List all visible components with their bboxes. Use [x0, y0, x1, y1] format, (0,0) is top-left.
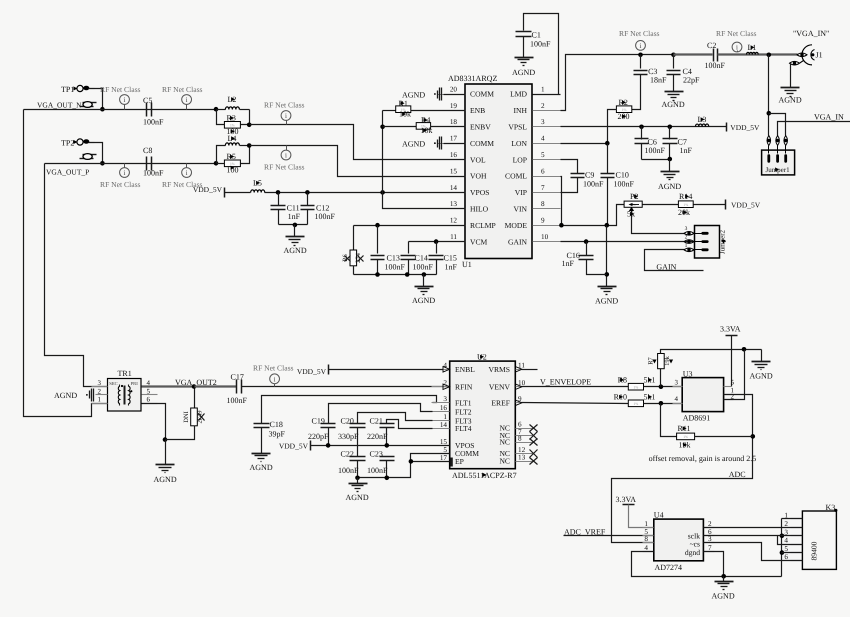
- svg-text:C19: C19: [312, 417, 325, 426]
- svg-text:VDD_5V: VDD_5V: [731, 200, 761, 209]
- U2 ENBL input arrow: [443, 367, 450, 373]
- wire C10 ground vertical: [606, 226, 608, 287]
- capacitor C15: [436, 242, 438, 254]
- wire U4 pin3 cs to K3 pin6: [704, 543, 803, 561]
- junction N-line split: [214, 107, 219, 112]
- svg-text:13: 13: [518, 453, 526, 461]
- svg-text:COMM: COMM: [470, 139, 494, 148]
- svg-text:10: 10: [541, 233, 549, 241]
- ground AGND below U4: [715, 581, 734, 583]
- svg-text:LON: LON: [511, 139, 527, 148]
- svg-text:100nF: 100nF: [143, 169, 164, 178]
- wire U4 pin6 sclk to K3 pin3: [704, 535, 803, 537]
- svg-text:17: 17: [440, 454, 448, 462]
- U2 left pin stubs: [432, 369, 450, 371]
- svg-text:4: 4: [644, 544, 648, 552]
- svg-text:C14: C14: [415, 254, 428, 263]
- wire R2 to LON vertical: [608, 110, 617, 144]
- junction rail C14: [405, 272, 410, 277]
- svg-text:2: 2: [784, 520, 788, 528]
- resistor R6: [350, 250, 357, 266]
- junction EP/COMM: [409, 459, 414, 464]
- svg-text:C18: C18: [270, 420, 283, 429]
- svg-text:20: 20: [450, 85, 458, 93]
- capacitor C9: [561, 160, 578, 174]
- svg-text:AGND: AGND: [284, 246, 307, 255]
- svg-text:AD8331ARQZ: AD8331ARQZ: [448, 74, 497, 83]
- wire VENV net: [522, 386, 629, 388]
- svg-text:C21: C21: [370, 417, 383, 426]
- svg-text:dgnd: dgnd: [685, 548, 700, 557]
- svg-text:AGND: AGND: [779, 96, 802, 105]
- wire EREF net: [522, 403, 629, 404]
- wire VCM net: [409, 241, 466, 243]
- svg-text:U1: U1: [462, 260, 472, 269]
- svg-text:i: i: [186, 169, 188, 177]
- svg-text:TP1: TP1: [61, 85, 74, 94]
- svg-text:1nF: 1nF: [680, 146, 693, 155]
- junction J1 tap: [767, 53, 772, 58]
- svg-text:COMM: COMM: [470, 90, 494, 99]
- junction C21 bottom: [385, 443, 390, 448]
- wire K3 ground bus: [782, 518, 803, 520]
- svg-text:5: 5: [147, 387, 151, 395]
- junction C22 ground: [355, 476, 360, 481]
- junction C19 bottom: [326, 443, 331, 448]
- wire VPOS rail: [265, 192, 466, 194]
- svg-text:100nF: 100nF: [705, 61, 726, 70]
- capacitor C12: [307, 193, 309, 206]
- op-amp U2 ADL5511ACPZ-R7 body: [450, 361, 516, 469]
- junction ground stub C11/C12: [293, 223, 298, 228]
- inductor L1: [747, 52, 759, 54]
- svg-text:MODE: MODE: [505, 221, 528, 230]
- svg-text:i: i: [186, 96, 188, 104]
- svg-text:FLT1: FLT1: [455, 398, 472, 407]
- junction VGA_OUT2: [192, 384, 197, 389]
- U3 pin stubs: [673, 386, 683, 388]
- svg-text:J1: J1: [816, 51, 823, 60]
- wire P-line to U1 VOH: [250, 146, 466, 177]
- wire LMD to C1: [524, 14, 559, 95]
- potentiometer P2: [624, 201, 642, 207]
- junction bus pin5: [780, 550, 785, 555]
- capacitor C11: [278, 193, 280, 206]
- svg-text:RF Net Class: RF Net Class: [162, 85, 203, 94]
- junction C4: [671, 53, 676, 58]
- svg-text:LOP: LOP: [513, 155, 527, 164]
- svg-text:C15: C15: [444, 254, 457, 263]
- wire VPOS rail U2: [311, 445, 450, 447]
- ground AGND at TR1 pin2: [93, 389, 95, 402]
- svg-text:39pF: 39pF: [269, 430, 286, 439]
- junction C12 tap: [305, 190, 310, 195]
- svg-text:DNI: DNI: [183, 411, 190, 423]
- svg-text:U3: U3: [683, 369, 693, 378]
- svg-text:6: 6: [541, 167, 545, 175]
- inductor L3: [696, 124, 709, 126]
- connector K3 89400 body: [802, 511, 836, 569]
- svg-text:3.3VA: 3.3VA: [720, 325, 741, 334]
- wire P2 wiper to jumper2 pin3: [632, 212, 685, 234]
- inductor L4: [217, 146, 226, 164]
- power VDD_5V at ENBL: [328, 365, 330, 375]
- junction C3: [638, 53, 643, 58]
- svg-text:22pF: 22pF: [683, 76, 700, 85]
- svg-text:16: 16: [450, 151, 458, 159]
- svg-text:3: 3: [541, 118, 545, 126]
- svg-text:3: 3: [98, 379, 102, 387]
- svg-text:C23: C23: [370, 450, 383, 459]
- U2 right pin stubs: [516, 369, 534, 371]
- svg-text:i: i: [124, 169, 126, 177]
- svg-text:100nF: 100nF: [367, 466, 388, 475]
- capacitor C16: [586, 242, 588, 256]
- svg-text:220pF: 220pF: [308, 432, 329, 441]
- capacitor C13: [377, 226, 379, 254]
- svg-text:18nF: 18nF: [650, 76, 667, 85]
- coax connector J1: [797, 53, 807, 57]
- svg-text:2k49: 2k49: [197, 411, 204, 424]
- svg-text:RF Net Class: RF Net Class: [100, 85, 141, 94]
- svg-text:C8: C8: [143, 146, 152, 155]
- svg-text:100nF: 100nF: [614, 180, 635, 189]
- capacitor C18: [254, 423, 270, 425]
- svg-text:RF Net Class: RF Net Class: [264, 101, 305, 110]
- junction C16 tap: [584, 239, 589, 244]
- wire TP1 to VGA_OUT_N net: [95, 89, 103, 110]
- svg-text:C6: C6: [648, 138, 657, 147]
- junction LON/C10: [605, 141, 610, 146]
- wire FLT1 net to C18: [262, 396, 437, 424]
- svg-text:1: 1: [685, 243, 688, 249]
- svg-text:AGND: AGND: [412, 296, 435, 305]
- svg-text:19: 19: [450, 102, 458, 110]
- svg-text:3: 3: [685, 226, 688, 232]
- junction C16 ground tap: [605, 272, 610, 277]
- svg-text:FLT4: FLT4: [455, 424, 472, 433]
- K3 pin stubs: [791, 518, 803, 520]
- ground AGND right of R7 rail: [761, 350, 763, 362]
- svg-text:VCM: VCM: [470, 237, 488, 246]
- svg-text:AD7274: AD7274: [655, 563, 683, 572]
- svg-text:i: i: [124, 96, 126, 104]
- svg-text:330pF: 330pF: [338, 432, 359, 441]
- svg-text:NC: NC: [499, 438, 510, 447]
- svg-text:7: 7: [708, 544, 712, 552]
- connector K3 corner dot: [834, 509, 837, 512]
- TR1 pin stubs: [92, 386, 108, 388]
- svg-text:C2: C2: [707, 41, 716, 50]
- svg-text:5: 5: [731, 378, 735, 386]
- svg-text:11: 11: [450, 233, 457, 241]
- junction C6C7 ground: [668, 157, 673, 162]
- svg-text:i: i: [285, 112, 287, 120]
- svg-text:LMD: LMD: [510, 90, 527, 99]
- svg-text:RF Net Class: RF Net Class: [100, 180, 141, 189]
- svg-text:COML: COML: [505, 172, 527, 181]
- capacitor C10: [607, 144, 609, 174]
- junction C6: [639, 125, 644, 130]
- svg-text:ENB: ENB: [470, 106, 485, 115]
- capacitor C3: [640, 55, 642, 69]
- svg-text:GAIN: GAIN: [508, 237, 527, 246]
- svg-text:AGND: AGND: [402, 90, 425, 99]
- svg-text:AGND: AGND: [658, 182, 681, 191]
- svg-text:1: 1: [541, 85, 545, 93]
- svg-text:AGND: AGND: [250, 463, 273, 472]
- wire MODE net: [561, 205, 625, 226]
- U1 right pin stubs: [533, 94, 561, 96]
- junction C23 ground: [385, 476, 390, 481]
- wire RF rail thick segment to C2: [674, 53, 713, 55]
- svg-text:RF Net Class: RF Net Class: [264, 163, 305, 172]
- wire VGA_OUT_N net: [24, 109, 217, 111]
- svg-text:VPOS: VPOS: [470, 188, 489, 197]
- svg-text:100nF: 100nF: [413, 263, 434, 272]
- inductor L2: [217, 109, 226, 111]
- junction N-line out: [247, 123, 252, 128]
- junction Jumper1 branch: [767, 111, 772, 116]
- svg-text:C7: C7: [678, 138, 687, 147]
- svg-text:ENBL: ENBL: [455, 365, 475, 374]
- svg-text:2: 2: [685, 235, 688, 241]
- svg-text:17: 17: [450, 135, 458, 143]
- svg-text:AGND: AGND: [712, 592, 735, 601]
- ground AGND below J1: [781, 87, 800, 89]
- svg-text:5: 5: [541, 151, 545, 159]
- capacitor C8: [146, 157, 148, 171]
- svg-text:i: i: [736, 44, 738, 52]
- junction dgnd ground: [721, 574, 726, 579]
- svg-text:8: 8: [644, 535, 648, 543]
- op-amp U4 AD7274 body: [654, 519, 704, 561]
- op-amp U1 AD8331ARQZ body: [465, 84, 532, 259]
- wire thick RF rail C2 to J1: [718, 53, 798, 55]
- svg-text:SEC: SEC: [109, 381, 117, 386]
- wire C17 to U2 RFIN: [242, 386, 450, 388]
- svg-text:VGA_OUT_N: VGA_OUT_N: [37, 101, 82, 110]
- resistor R8: [628, 383, 643, 390]
- svg-text:EREF: EREF: [491, 398, 510, 407]
- wire cap bank ground rail: [354, 274, 437, 276]
- svg-text:1: 1: [98, 396, 102, 404]
- svg-text:14: 14: [450, 184, 458, 192]
- svg-text:AGND: AGND: [750, 372, 773, 381]
- svg-text:13: 13: [450, 200, 458, 208]
- svg-text:1%: 1%: [683, 435, 688, 439]
- designator artifact marks: [231, 97, 235, 101]
- capacitor C20: [358, 413, 433, 424]
- wire jumper2 pin1 to GAIN label: [645, 250, 704, 271]
- wire ENB pullup vertical: [383, 111, 466, 209]
- wire VPSL rail: [561, 126, 727, 128]
- junction bus sclk: [780, 534, 785, 539]
- junction R10/R11/U3pin4: [659, 401, 664, 406]
- svg-text:4: 4: [784, 537, 788, 545]
- svg-text:PRI: PRI: [131, 381, 139, 386]
- svg-text:100nF: 100nF: [315, 212, 336, 221]
- svg-text:VDD_5V: VDD_5V: [730, 123, 760, 132]
- svg-text:AGND: AGND: [595, 297, 618, 306]
- svg-text:C5: C5: [143, 96, 152, 105]
- inductor L5: [225, 192, 251, 194]
- svg-text:"VGA_IN": "VGA_IN": [793, 29, 829, 38]
- svg-text:VRMS: VRMS: [488, 365, 510, 374]
- junction VPOS/R1R4 vertical: [380, 190, 385, 195]
- svg-text:HILO: HILO: [470, 205, 489, 214]
- wire ADC_VREF to U4 pin5: [564, 535, 654, 537]
- junction TP2/VGA_OUT_P: [100, 161, 105, 166]
- capacitor C19: [329, 404, 433, 424]
- svg-text:FLT2: FLT2: [455, 407, 472, 416]
- wire sclk branch to K3 pin4: [778, 536, 803, 545]
- wire U4 pin2 to K3 pin2: [704, 527, 803, 529]
- wire COML down to MODE net: [561, 177, 562, 226]
- svg-text:2: 2: [98, 387, 102, 395]
- ground AGND below TR1: [156, 464, 175, 466]
- svg-text:VOH: VOH: [470, 172, 487, 181]
- svg-text:RCLMP: RCLMP: [470, 221, 496, 230]
- op-amp U3 AD8691 body: [682, 378, 723, 412]
- svg-text:VGA_IN: VGA_IN: [814, 113, 844, 122]
- ground AGND below C4: [665, 91, 684, 93]
- junction R11 feedback: [751, 434, 756, 439]
- ground AGND below C1: [515, 57, 534, 59]
- svg-text:C13: C13: [387, 254, 400, 263]
- wire TR1 pin6 to ground: [142, 404, 166, 440]
- capacitor C17: [236, 380, 238, 394]
- U2 NC x marks: [530, 425, 538, 432]
- svg-text:2: 2: [708, 520, 712, 528]
- ground AGND mode net: [598, 286, 617, 288]
- U1 left pin stubs: [438, 94, 466, 96]
- wire VGA_IN net from Jumper1 pin2: [778, 122, 850, 136]
- svg-text:8: 8: [541, 200, 545, 208]
- svg-text:3: 3: [443, 395, 447, 403]
- svg-text:VDD_5V: VDD_5V: [297, 367, 327, 376]
- svg-text:1%: 1%: [683, 203, 688, 207]
- svg-text:U4: U4: [654, 511, 664, 520]
- resistor R14: [643, 204, 679, 206]
- wire 3.3VA to U3 pin5: [731, 336, 733, 387]
- svg-text:100nF: 100nF: [385, 263, 406, 272]
- svg-text:C10: C10: [616, 171, 629, 180]
- svg-text:100nF: 100nF: [583, 180, 604, 189]
- svg-text:AGND: AGND: [54, 391, 77, 400]
- U4 pin stubs: [643, 527, 654, 529]
- wire TP2 to VGA_OUT_P net: [95, 143, 103, 164]
- junction MODE ground vertical: [605, 223, 610, 228]
- svg-text:5: 5: [443, 446, 447, 454]
- junction P-line out: [247, 143, 252, 148]
- svg-text:100nF: 100nF: [227, 396, 248, 405]
- svg-text:15: 15: [450, 167, 458, 175]
- capacitor C23: [380, 456, 395, 458]
- wire VGA_OUT_P to transformer pin3: [45, 164, 108, 387]
- svg-text:1%: 1%: [634, 402, 639, 406]
- svg-text:INH: INH: [514, 106, 528, 115]
- svg-text:VPSL: VPSL: [508, 123, 527, 132]
- transformer TR1: [108, 379, 142, 412]
- resistor R10: [628, 400, 643, 407]
- svg-text:ADC: ADC: [729, 470, 746, 479]
- svg-text:K3: K3: [826, 503, 836, 512]
- junction rail C13: [375, 272, 380, 277]
- svg-text:VDD_5V: VDD_5V: [193, 185, 223, 194]
- wire N-line to U1 VOL: [250, 125, 466, 160]
- junction C11 tap: [276, 190, 281, 195]
- svg-text:100nF: 100nF: [530, 40, 551, 49]
- resistor R11: [661, 404, 677, 437]
- svg-text:VOL: VOL: [470, 155, 486, 164]
- svg-text:1%: 1%: [634, 385, 639, 389]
- svg-text:i: i: [285, 152, 287, 160]
- svg-text:100nF: 100nF: [338, 466, 359, 475]
- capacitor C22: [350, 456, 366, 458]
- resistor R1: [383, 110, 396, 112]
- svg-text:TP2: TP2: [61, 139, 74, 148]
- capacitor C6: [641, 127, 643, 140]
- junction R7/R8/U3pin3: [659, 384, 664, 389]
- svg-text:18: 18: [450, 118, 458, 126]
- junction C7: [668, 125, 673, 130]
- svg-text:14: 14: [440, 421, 448, 429]
- svg-text:NC: NC: [499, 457, 510, 466]
- svg-text:15: 15: [440, 438, 448, 446]
- ground AGND cap bank: [415, 286, 434, 288]
- resistor R9 DNI: [142, 385, 195, 387]
- svg-text:220nF: 220nF: [367, 432, 388, 441]
- svg-text:1nF: 1nF: [562, 259, 575, 268]
- wire branch to Jumper1 pin3: [769, 114, 786, 136]
- junction TP1/VGA_OUT_N: [100, 107, 105, 112]
- capacitor C5: [146, 103, 148, 117]
- svg-text:RF Net Class: RF Net Class: [716, 29, 757, 38]
- wire U3 pin2 to rail: [724, 350, 745, 400]
- svg-text:AGND: AGND: [154, 475, 177, 484]
- svg-text:6: 6: [147, 396, 151, 404]
- wire RF rail down to Jumper1: [768, 55, 770, 136]
- svg-text:VDD_5V: VDD_5V: [279, 442, 309, 451]
- svg-text:i: i: [274, 375, 276, 383]
- wire VGA_OUT2 to C17 thick: [195, 385, 237, 387]
- junction TR1 ground node: [163, 437, 168, 442]
- svg-text:12: 12: [450, 217, 458, 225]
- junction C15 tap: [434, 239, 439, 244]
- wire VGA_OUT_P net: [45, 163, 217, 165]
- wire LON: [561, 143, 608, 145]
- capacitor C1: [516, 31, 532, 33]
- svg-text:offset removal, gain is around: offset removal, gain is around 2.5: [649, 454, 757, 463]
- U2 EP bar: [450, 458, 453, 467]
- power VDD_5V at L3: [726, 123, 728, 132]
- junction rail ground stub: [422, 272, 427, 277]
- svg-text:AGND: AGND: [402, 140, 425, 149]
- wire C6 C7 ground rail: [642, 159, 670, 161]
- svg-text:1nF: 1nF: [445, 263, 458, 272]
- junction U3 pin2 feedback: [742, 347, 747, 352]
- ground AGND below C18: [252, 453, 271, 455]
- capacitor C4: [673, 55, 675, 69]
- svg-text:V_ENVELOPE: V_ENVELOPE: [540, 378, 591, 387]
- U2 output arrows: [515, 367, 522, 373]
- junction C13 tap: [375, 223, 380, 228]
- resistor R5: [217, 163, 225, 165]
- svg-text:VIP: VIP: [515, 188, 527, 197]
- svg-text:100nF: 100nF: [143, 118, 164, 127]
- wire COMM EP ground: [358, 454, 450, 478]
